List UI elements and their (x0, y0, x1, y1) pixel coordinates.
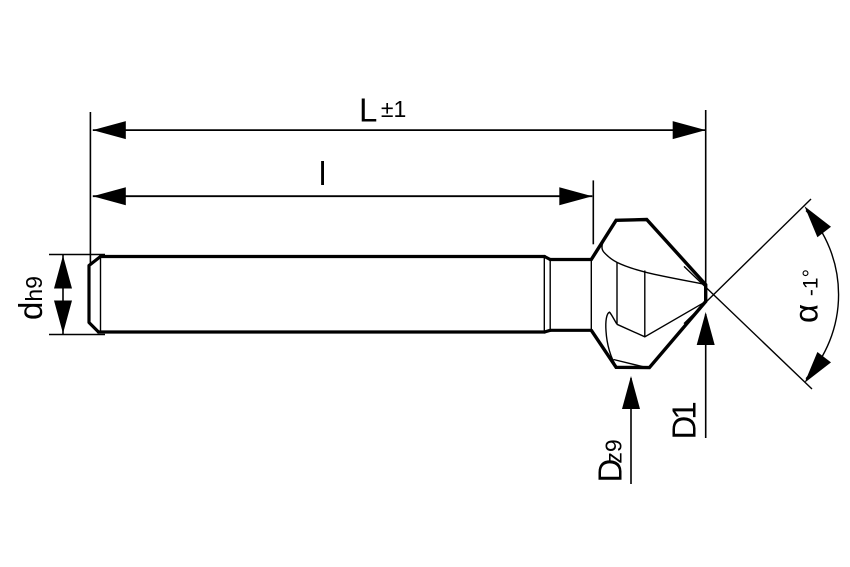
dimension L: line (93, 129, 706, 131)
dimension l: left arrowhead (93, 187, 126, 205)
dimension d: down arrowhead (54, 301, 72, 334)
lower flute edge (617, 302, 706, 337)
dimension d: vertical line (62, 255, 64, 335)
shank chamfer edge line (thin) (100, 257, 102, 333)
alpha angle arc (806, 211, 839, 379)
bottom flute face line (614, 360, 648, 368)
neck-head junction line (thin) (590, 260, 592, 331)
shank outline (thick) (89, 257, 545, 333)
head outline (thick) (591, 220, 705, 368)
dimension l: right arrowhead (559, 187, 592, 205)
alpha construction line lower (684, 266, 812, 389)
flute vertical line V2 (616, 262, 618, 324)
D1 leader line (705, 314, 707, 438)
dimension L: right arrowhead (673, 121, 706, 139)
svg-text:D1: D1 (666, 401, 703, 439)
upper flute curve (602, 237, 706, 284)
shank-neck step lines (543, 257, 545, 333)
D1 arrowhead (697, 312, 715, 345)
dimension d: bottom extension line (49, 334, 105, 336)
dimension L: right extension line (705, 110, 707, 285)
alpha arc upper arrowhead (805, 206, 832, 237)
svg-text:l: l (319, 155, 326, 192)
dimension l: right extension line (592, 180, 594, 244)
dimension d: top extension line (49, 254, 105, 256)
dimension L: left extension line (89, 112, 91, 264)
dimension d: up arrowhead (54, 256, 72, 289)
neck outline (thick) (550, 260, 591, 331)
lower flute hook curve (606, 312, 617, 366)
alpha arc lower arrowhead (805, 352, 832, 383)
step chamfer (thick) (545, 257, 551, 333)
flute vertical line V3 (644, 271, 646, 337)
dimension L: left arrowhead (93, 121, 126, 139)
Dz9 leader line (630, 378, 632, 484)
dimension l: line (93, 195, 593, 197)
Dz9 arrowhead (622, 376, 640, 409)
alpha construction line upper (684, 199, 811, 324)
